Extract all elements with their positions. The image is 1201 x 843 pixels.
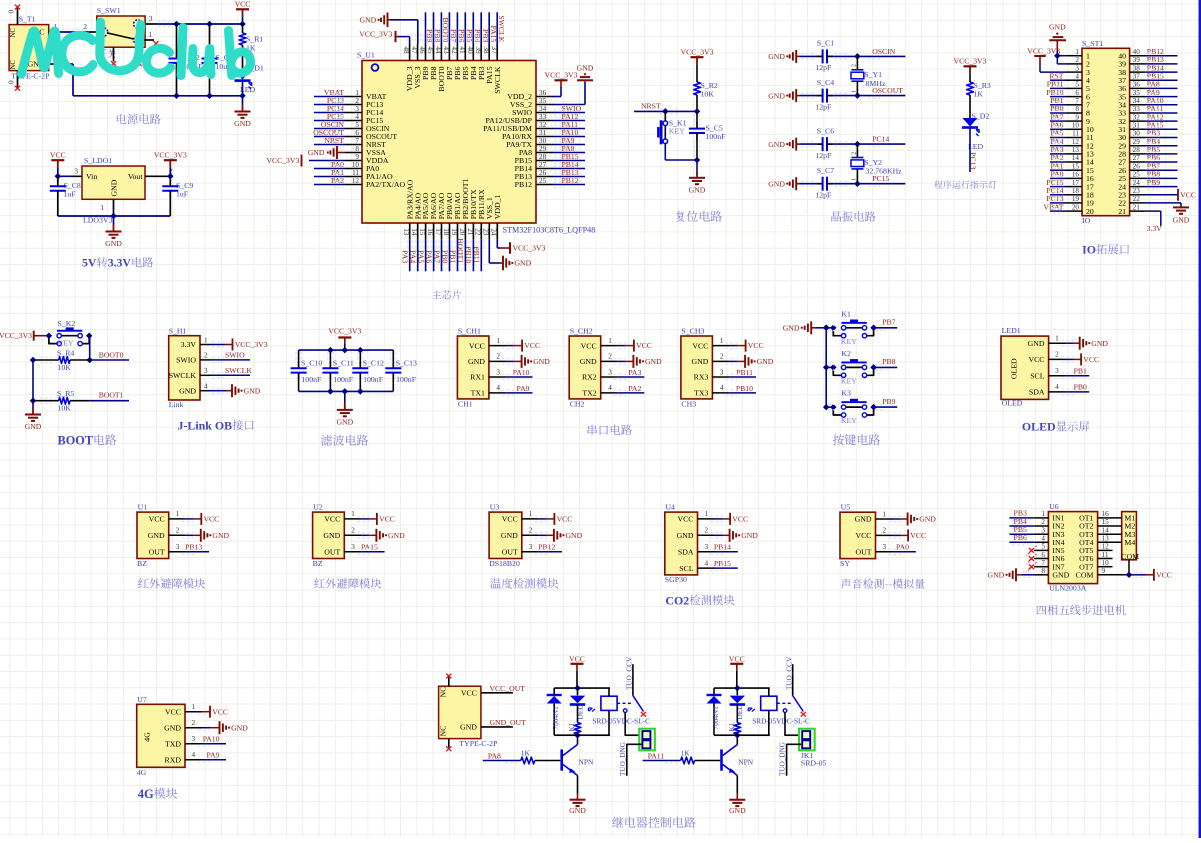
- svg-text:34: 34: [1133, 97, 1141, 105]
- net label PC13: [314, 96, 345, 107]
- pin 10 of S_ST1: [1066, 122, 1094, 135]
- svg-text:VCC: VCC: [212, 707, 228, 716]
- net label PB7: [1146, 161, 1178, 172]
- net label PB15: [1146, 71, 1178, 82]
- svg-text:16: 16: [1072, 171, 1080, 179]
- svg-text:19: 19: [450, 228, 458, 236]
- no-connect X: [446, 746, 451, 751]
- svg-text:SDA: SDA: [678, 547, 694, 556]
- junction: [173, 21, 180, 28]
- ground sideways: [501, 256, 532, 271]
- svg-text:Link: Link: [169, 400, 184, 409]
- net label PB8: [1146, 170, 1178, 181]
- junction: [327, 347, 334, 354]
- pin 28 PB15: [515, 153, 553, 165]
- pin 12 PA2/TX/AO: [345, 177, 406, 189]
- svg-text:15: 15: [1102, 518, 1110, 526]
- wire VSS_2 to GND: [553, 82, 585, 105]
- svg-text:Vout: Vout: [128, 172, 143, 181]
- capacitor S_C13: [385, 350, 417, 391]
- svg-text:GND: GND: [689, 185, 706, 194]
- net label SWCLK: [495, 12, 506, 44]
- svg-text:3.3V: 3.3V: [181, 340, 197, 349]
- capacitor S_C11: [322, 350, 353, 391]
- power flag VCC_3V3: [154, 150, 187, 167]
- pin 47: [410, 44, 422, 89]
- pin 9 VDDA: [345, 153, 389, 165]
- pin 4 net PB10: [712, 384, 756, 396]
- net label PA10: [1146, 96, 1178, 107]
- svg-text:0: 0: [8, 80, 16, 84]
- title 电源电路: [117, 114, 161, 125]
- wire bottom rail LDO: [58, 215, 171, 217]
- svg-text:IO: IO: [1082, 243, 1096, 257]
- svg-text:PC14: PC14: [872, 135, 889, 144]
- svg-text:17: 17: [434, 228, 442, 236]
- junction: [239, 93, 246, 100]
- svg-text:GND: GND: [460, 723, 477, 732]
- junction: [86, 357, 93, 364]
- title 复位电路: [676, 211, 722, 222]
- pin 37 of S_ST1: [1118, 72, 1145, 85]
- pin 3 net PB13: [169, 543, 209, 555]
- net label PA4: [409, 240, 421, 272]
- svg-text:2: 2: [851, 64, 857, 67]
- title 串口电路: [588, 425, 632, 436]
- svg-text:39: 39: [474, 46, 482, 54]
- svg-text:VDD_1: VDD_1: [493, 195, 502, 220]
- svg-text:PB11: PB11: [736, 368, 753, 377]
- pin 2 of S_ST1: [1066, 56, 1090, 69]
- svg-text:PB1: PB1: [1074, 367, 1087, 376]
- pin 5 of SW1 bottom right: [138, 47, 140, 61]
- power flag VCC: [729, 654, 745, 671]
- resistor S_R2: [694, 81, 718, 99]
- junction: [167, 173, 174, 180]
- connector S_CH1 (serial): [457, 327, 489, 409]
- pin 2 to GND: [489, 353, 550, 368]
- pin 36 of S_ST1: [1118, 81, 1145, 94]
- svg-text:TUO_CCV: TUO_CCV: [626, 656, 634, 690]
- svg-text:37: 37: [1133, 72, 1141, 80]
- pin 40: [466, 44, 478, 80]
- pin 35 VSS_2: [510, 97, 553, 109]
- pin 20 of S_ST1: [1066, 203, 1094, 216]
- svg-text:GND: GND: [768, 52, 785, 61]
- svg-text:38: 38: [1133, 64, 1141, 72]
- svg-text:GND: GND: [569, 806, 586, 815]
- svg-text:LED: LED: [240, 85, 256, 94]
- net label PA6: [424, 240, 436, 272]
- svg-text:TUO_DNG: TUO_DNG: [619, 742, 627, 776]
- pin 3 net PA15: [344, 543, 384, 555]
- wire contact to connector pin1: [625, 712, 641, 735]
- svg-text:SWCLK: SWCLK: [497, 15, 506, 42]
- net label PB0: [1050, 104, 1066, 115]
- pin 13 PA3/RX/AO: [402, 179, 414, 239]
- svg-text:GND: GND: [164, 723, 181, 732]
- svg-text:VCC_3V3: VCC_3V3: [359, 29, 392, 38]
- svg-text:S_C8: S_C8: [64, 181, 81, 190]
- svg-text:18: 18: [1072, 187, 1080, 195]
- title CO2检测模块: [665, 593, 734, 607]
- svg-text:NC: NC: [10, 28, 17, 38]
- svg-text:GND: GND: [580, 357, 597, 366]
- pin 2 to GND: [698, 527, 759, 542]
- pin 7 NRST: [345, 137, 386, 149]
- pin 28 of S_ST1: [1118, 146, 1145, 159]
- wire VCC to rail: [736, 671, 738, 688]
- svg-text:Vin: Vin: [86, 172, 97, 181]
- pin 31 of S_ST1: [1118, 122, 1145, 135]
- MCU S_U1 STM32F103C8T6_LQFP48: [357, 51, 536, 224]
- power flag VCC_3V3 at VDDA pin 9: [266, 155, 345, 167]
- svg-text:1: 1: [720, 337, 724, 345]
- net label VCC_OUT: [481, 684, 525, 693]
- driver U6 ULN2003A: [1048, 502, 1097, 593]
- pin 0 bottom of S_T1: [8, 71, 18, 88]
- pin 7 no-connect: [1027, 559, 1049, 572]
- svg-text:S_SW1: S_SW1: [97, 6, 121, 15]
- net label PA12: [1146, 112, 1178, 123]
- pin 30 of S_ST1: [1118, 130, 1145, 143]
- net label PB14: [553, 160, 585, 171]
- svg-text:44: 44: [434, 46, 442, 54]
- svg-text:2: 2: [355, 97, 359, 105]
- svg-text:2: 2: [351, 527, 355, 535]
- svg-text:BOOT1: BOOT1: [99, 391, 124, 400]
- resistor 1K: [568, 705, 581, 736]
- ground: [577, 64, 594, 82]
- pin 21 PB10/TX: [466, 189, 478, 240]
- svg-text:19: 19: [1072, 195, 1080, 203]
- label STM32F103C8T6_LQFP48: [503, 226, 596, 235]
- svg-text:S_CH2: S_CH2: [570, 327, 593, 336]
- svg-text:10K: 10K: [701, 90, 715, 99]
- junction: [734, 732, 741, 739]
- wire flag to Vout: [169, 167, 171, 176]
- svg-text:PB11: PB11: [472, 246, 481, 263]
- wire to GND: [32, 401, 34, 408]
- pin 12 OT5 stub: [1098, 543, 1113, 551]
- pin 3 net PB12: [522, 543, 562, 555]
- wire VDD_2 to VCC_3V3: [553, 80, 561, 96]
- net label 3.3V at pin 21: [1146, 211, 1163, 233]
- LED: [570, 688, 595, 719]
- connector S_CH2 (serial): [569, 327, 601, 409]
- svg-text:9: 9: [1075, 113, 1079, 121]
- svg-text:GND: GND: [768, 91, 785, 100]
- svg-text:SCL: SCL: [1030, 371, 1045, 380]
- pin 38 of S_ST1: [1118, 64, 1145, 77]
- svg-text:1uF: 1uF: [176, 190, 189, 199]
- power flag VCC: [235, 0, 251, 16]
- pin 19 of S_ST1: [1066, 195, 1094, 208]
- svg-text:8: 8: [1041, 567, 1045, 575]
- svg-text:8: 8: [1075, 105, 1079, 113]
- svg-text:35: 35: [1133, 89, 1141, 97]
- svg-text:30: 30: [1133, 130, 1141, 138]
- svg-text:1: 1: [355, 89, 359, 97]
- svg-text:4: 4: [496, 384, 500, 392]
- svg-text:3: 3: [529, 543, 533, 551]
- svg-text:1: 1: [148, 31, 152, 39]
- pin 21 of S_ST1: [1118, 203, 1145, 216]
- pin 4 net PB6: [1009, 533, 1048, 545]
- svg-text:2: 2: [705, 527, 709, 535]
- svg-text:5: 5: [355, 121, 359, 129]
- pin 23 of S_ST1: [1118, 187, 1145, 200]
- wire top rail: [554, 687, 610, 689]
- net label PB10: [1046, 88, 1066, 99]
- capacitor S_C9: [162, 176, 193, 216]
- svg-text:OLED: OLED: [1009, 358, 1018, 379]
- svg-text:100nF: 100nF: [301, 375, 322, 384]
- pin 45: [426, 44, 438, 80]
- wire: [969, 73, 971, 82]
- svg-text:LED1: LED1: [1002, 326, 1021, 335]
- svg-text:PA10: PA10: [203, 735, 220, 744]
- net label PB8: [874, 357, 898, 370]
- svg-text:PA4: PA4: [409, 250, 418, 263]
- net label PB10: [464, 240, 476, 272]
- svg-text:5V: 5V: [82, 256, 97, 270]
- net label PB1: [1050, 96, 1066, 107]
- ground: [729, 800, 746, 815]
- svg-text:S_C10: S_C10: [301, 358, 322, 367]
- svg-text:5: 5: [1041, 543, 1045, 551]
- svg-text:21: 21: [1133, 203, 1141, 211]
- ground: [105, 225, 122, 249]
- net label PB12: [553, 176, 585, 187]
- svg-text:12: 12: [1102, 543, 1110, 551]
- pin 2 net PB4: [1009, 517, 1048, 529]
- net label PA1: [1050, 161, 1066, 172]
- pin 24 of S_ST1: [1118, 179, 1145, 192]
- svg-text:4G: 4G: [138, 787, 154, 801]
- pin 2 net SWIO: [200, 351, 250, 363]
- svg-text:1K: 1K: [521, 749, 531, 758]
- junction: [173, 93, 180, 100]
- svg-text:4: 4: [1055, 383, 1059, 391]
- pin 3 of SW1: [142, 15, 156, 24]
- svg-text:TUO_DNG: TUO_DNG: [779, 742, 787, 776]
- svg-text:3: 3: [1041, 526, 1045, 534]
- svg-text:BZ: BZ: [313, 559, 323, 568]
- svg-text:VCC_3V3: VCC_3V3: [266, 156, 299, 165]
- svg-text:S_C5: S_C5: [706, 123, 723, 132]
- svg-text:VCC_3V3: VCC_3V3: [681, 47, 714, 56]
- net label PC13 wire down: [969, 128, 978, 173]
- svg-text:VCC: VCC: [910, 531, 926, 540]
- svg-text:K1: K1: [568, 722, 576, 731]
- svg-text:2: 2: [608, 353, 612, 361]
- svg-text:S_C13: S_C13: [396, 358, 417, 367]
- svg-text:1uF: 1uF: [64, 190, 77, 199]
- pin 37: [490, 44, 502, 94]
- no-connect X: [641, 712, 646, 717]
- wire collector: [577, 735, 579, 744]
- pin 9 of S_ST1: [1066, 113, 1090, 126]
- junction: [30, 397, 37, 404]
- junction: [239, 21, 246, 28]
- relay contact NO: [783, 709, 787, 713]
- svg-text:4: 4: [720, 384, 724, 392]
- net label PA11: [553, 120, 585, 131]
- svg-text:BOOT1: BOOT1: [456, 238, 465, 263]
- power flag VCC_3V3: [510, 242, 546, 254]
- svg-text:4: 4: [1075, 72, 1079, 80]
- pin 35 of S_ST1: [1118, 89, 1145, 102]
- svg-text:GND: GND: [179, 386, 196, 395]
- wire VSS_1 pin23 to GND: [489, 240, 501, 263]
- title 红外避障模块: [314, 578, 381, 588]
- pin 18 of S_ST1: [1066, 187, 1094, 200]
- svg-text:7004N1: 7004N1: [712, 706, 720, 730]
- svg-text:VCC: VCC: [855, 531, 871, 540]
- net label PA11: [643, 751, 681, 763]
- wire to key: [34, 335, 49, 337]
- svg-text:1: 1: [176, 510, 180, 518]
- pin 25 PB12: [515, 177, 553, 189]
- svg-text:M4: M4: [1124, 538, 1135, 547]
- svg-text:3: 3: [176, 543, 180, 551]
- svg-text:25: 25: [539, 177, 547, 185]
- no-connect X on SW1 pin1: [153, 41, 158, 46]
- svg-text:SDA: SDA: [1029, 388, 1045, 397]
- svg-text:45: 45: [426, 46, 434, 54]
- svg-text:GND: GND: [1173, 216, 1190, 225]
- wire gnd to key rail: [816, 327, 826, 329]
- svg-text:SY: SY: [840, 559, 850, 568]
- svg-text:31: 31: [539, 129, 547, 137]
- wire top rail: [299, 344, 394, 350]
- pin 8 to GND: [988, 567, 1049, 581]
- junction: [823, 325, 830, 332]
- ground at pins 1-2: [1049, 22, 1066, 64]
- svg-text:39: 39: [1133, 56, 1141, 64]
- svg-text:6: 6: [1041, 551, 1045, 559]
- wire to GND: [696, 160, 698, 171]
- svg-text:SWCLK: SWCLK: [225, 366, 252, 375]
- svg-text:3: 3: [1055, 367, 1059, 375]
- svg-text:S_T1: S_T1: [19, 14, 36, 23]
- svg-text:NC: NC: [10, 60, 17, 70]
- net label GND_OUT: [481, 718, 526, 727]
- svg-text:VCC: VCC: [732, 515, 748, 524]
- svg-text:8MHz: 8MHz: [866, 79, 886, 88]
- svg-text:PA7: PA7: [432, 250, 441, 263]
- pin 19 PB1/AO: [450, 192, 462, 240]
- capacitor S_C8: [50, 176, 81, 216]
- pin 33 PA12/USB/DP: [485, 113, 553, 125]
- svg-text:DS18B20: DS18B20: [489, 559, 520, 568]
- net label PA7: [432, 240, 444, 272]
- power flag VCC: [50, 150, 66, 167]
- net label PA5: [416, 240, 428, 272]
- pin 6 no-connect: [1027, 551, 1049, 564]
- pin 39 of S_ST1: [1118, 56, 1145, 69]
- svg-text:41: 41: [458, 46, 466, 54]
- svg-text:VCC: VCC: [324, 515, 340, 524]
- module U5: [840, 503, 876, 568]
- net label PB9: [874, 397, 898, 410]
- pin 46: [418, 44, 430, 80]
- pin 1 VCC of S_T1: [49, 23, 61, 32]
- pin 36 VDD_2: [507, 89, 553, 101]
- net label PB4: [1146, 137, 1178, 148]
- svg-text:3: 3: [608, 368, 612, 376]
- pin 6 of S_ST1: [1066, 89, 1090, 102]
- svg-text:7: 7: [1075, 97, 1079, 105]
- svg-text:KEY: KEY: [841, 377, 857, 386]
- wire OT1 to M1: [1098, 510, 1122, 518]
- display LED1 (OLED): [1001, 326, 1049, 407]
- header S_ST1 (IO expansion): [1082, 39, 1130, 225]
- svg-text:PB8: PB8: [882, 357, 895, 366]
- svg-text:31: 31: [1133, 122, 1141, 130]
- svg-text:10: 10: [1102, 559, 1110, 567]
- svg-text:4: 4: [608, 384, 612, 392]
- svg-text:GND: GND: [919, 515, 936, 524]
- svg-text:PB9: PB9: [1147, 178, 1160, 187]
- wire R2 to NRST junction: [696, 95, 698, 111]
- wire VCC to C8/Vin: [58, 167, 82, 176]
- svg-text:J-Link OB: J-Link OB: [178, 418, 233, 432]
- ground at pin 22: [1146, 203, 1190, 225]
- svg-text:VCC: VCC: [1156, 570, 1172, 579]
- wire connector pin2 / GND_OUT: [779, 742, 802, 776]
- svg-text:GND: GND: [336, 417, 353, 426]
- wire to GND: [344, 391, 346, 403]
- pin 24 VDD_1: [490, 195, 502, 240]
- svg-text:VCC_3V3: VCC_3V3: [545, 71, 578, 80]
- pin 26 PB13: [515, 169, 553, 181]
- pin 27 PB14: [515, 161, 553, 173]
- title 晶振电路: [831, 211, 875, 222]
- net label VBAT: [314, 88, 345, 99]
- svg-text:NC: NC: [439, 726, 448, 737]
- svg-text:VCC: VCC: [502, 515, 518, 524]
- svg-text:16: 16: [426, 228, 434, 236]
- LED S_D1: [235, 63, 264, 96]
- svg-text:IO: IO: [1082, 216, 1091, 225]
- pin 2 PC13: [345, 97, 383, 109]
- pin 4 net PB0: [1049, 383, 1090, 395]
- svg-text:27: 27: [1133, 154, 1141, 162]
- LED S_D2: [962, 112, 989, 151]
- svg-text:13: 13: [1102, 535, 1110, 543]
- diode 1N4007: [707, 688, 722, 735]
- svg-text:GND: GND: [1049, 22, 1066, 31]
- wire key rail vertical: [825, 328, 827, 407]
- pin 0 top of S_T1: [8, 8, 18, 25]
- svg-text:2: 2: [192, 719, 196, 727]
- svg-text:GND: GND: [855, 515, 872, 524]
- key K1: [826, 309, 877, 346]
- svg-text:100nF: 100nF: [396, 375, 417, 384]
- svg-text:VCC: VCC: [581, 341, 597, 350]
- svg-text:PA2: PA2: [331, 176, 344, 185]
- svg-text:PA9: PA9: [207, 751, 220, 760]
- svg-text:U7: U7: [137, 695, 147, 704]
- title 温度检测模块: [490, 578, 558, 589]
- net label RST: [1049, 71, 1066, 82]
- resistor 1K: [728, 705, 741, 736]
- svg-text:PB12: PB12: [538, 543, 555, 552]
- svg-text:STM32F103C8T6_LQFP48: STM32F103C8T6_LQFP48: [503, 226, 596, 235]
- svg-text:1K: 1K: [681, 749, 691, 758]
